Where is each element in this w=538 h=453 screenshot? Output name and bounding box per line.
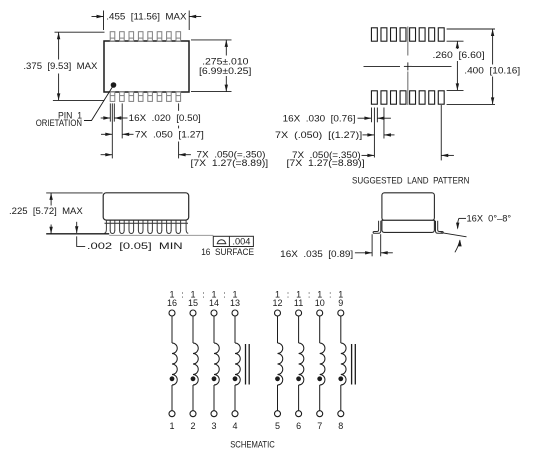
- svg-text:SCHEMATIC: SCHEMATIC: [230, 439, 275, 449]
- dimension .455 [11.56] MAX (package width, top): [103, 11, 105, 31]
- svg-text:14: 14: [209, 298, 219, 308]
- svg-text:6: 6: [296, 421, 301, 431]
- svg-text::: :: [223, 290, 226, 300]
- dimension 16X .035 [0.89] (foot length): [371, 234, 373, 256]
- svg-text:5: 5: [275, 421, 280, 431]
- turns ratio labels 1 : 1 : 1 : 1 (group 2): [275, 290, 343, 300]
- transformer core bars, group 1: [245, 344, 247, 385]
- svg-text:.225 [5.72] MAX: .225 [5.72] MAX: [9, 206, 83, 216]
- flatness callout box: [213, 236, 253, 246]
- end view package body: [382, 193, 435, 221]
- svg-text::: :: [181, 290, 184, 300]
- dimension 7X (.050) [(1.27)] (pad pitch): [363, 134, 375, 136]
- package top view pins (16 gull-wing leads, 8 top / 8 bottom): [110, 32, 180, 102]
- flatness symbol: [217, 243, 227, 245]
- .002 leader elbow: [77, 236, 86, 246]
- svg-text:10: 10: [315, 298, 325, 308]
- lead foot reference line (8 deg): [441, 233, 467, 237]
- svg-text::: :: [308, 290, 311, 300]
- side view leads comb with feet: [104, 220, 188, 233]
- svg-text:16 SURFACE: 16 SURFACE: [201, 247, 254, 257]
- seating plane extension line (gray, to flatness callout): [109, 234, 213, 236]
- land pattern pads (16 solder pads, 8 top / 8 bottom): [371, 28, 444, 104]
- svg-text:SUGGESTED LAND PATTERN: SUGGESTED LAND PATTERN: [352, 175, 470, 185]
- winding T5: terminal circles, wire, 4-loop coil, polarity dot: [275, 310, 283, 417]
- svg-text:2: 2: [190, 421, 195, 431]
- end view base strip: [382, 220, 435, 232]
- dimension .260 [6.60] (inner pad edge gap): [447, 40, 464, 42]
- svg-text:.375 [9.53] MAX: .375 [9.53] MAX: [23, 61, 97, 71]
- svg-text:ORIETATION: ORIETATION: [36, 118, 82, 128]
- end view right gull-wing lead: [436, 221, 444, 234]
- dimension 7X .050(=.350) (pad span): [440, 105, 442, 160]
- winding T6: terminal circles, wire, 4-loop coil, polarity dot: [296, 310, 304, 417]
- pin 1 orientation dot: [111, 82, 117, 88]
- svg-text::: :: [329, 290, 332, 300]
- land pattern centerlines with center cross: [407, 27, 409, 56]
- svg-text:16X .020 [0.50]: 16X .020 [0.50]: [129, 113, 201, 123]
- svg-text:9: 9: [338, 298, 343, 308]
- svg-text:7X .050 [1.27]: 7X .050 [1.27]: [135, 130, 204, 140]
- winding T8: terminal circles, wire, 4-loop coil, polarity dot: [338, 310, 346, 417]
- dimension 16X .020 [0.50] (pin width): [109, 103, 111, 121]
- svg-text:[6.99±0.25]: [6.99±0.25]: [199, 66, 251, 76]
- svg-text:7X (.050) [(1.27)]: 7X (.050) [(1.27)]: [275, 130, 362, 140]
- svg-text:7: 7: [317, 421, 322, 431]
- transformer core bars, group 2: [351, 344, 353, 385]
- svg-text:16: 16: [167, 298, 177, 308]
- svg-text:13: 13: [230, 298, 240, 308]
- dimension .225 [5.72] MAX (package height): [46, 192, 102, 194]
- seating plane line (black, under package): [46, 233, 109, 235]
- top pin numbers 16 15 14 13 12 11 10 9: [167, 298, 343, 308]
- svg-text:8: 8: [338, 421, 343, 431]
- svg-text:.455 [11.56] MAX: .455 [11.56] MAX: [106, 12, 186, 22]
- svg-text:[7X 1.27(=8.89)]: [7X 1.27(=8.89)]: [287, 158, 365, 168]
- dimension .400 [10.16] (outer pad edge span): [447, 28, 495, 30]
- svg-text:4: 4: [232, 421, 237, 431]
- angle dimension 16X 0-8 deg leader and arcs: [459, 217, 466, 219]
- svg-text:11: 11: [294, 298, 303, 308]
- side view package body: [103, 193, 189, 220]
- svg-text:16X 0°–8°: 16X 0°–8°: [467, 214, 512, 224]
- svg-text:.400 [10.16]: .400 [10.16]: [464, 66, 520, 76]
- leader line from PIN 1 ORIETATION label to dot: [84, 87, 113, 121]
- svg-text:16X .035 [0.89]: 16X .035 [0.89]: [280, 249, 353, 259]
- turns ratio labels 1 : 1 : 1 : 1 (group 1): [169, 290, 237, 300]
- svg-text:.002 [0.05] MIN: .002 [0.05] MIN: [87, 241, 183, 251]
- dimension 16X .030 [0.76] (pad width): [370, 108, 372, 123]
- dimension .375 [9.53] MAX (overall lead-to-lead, left): [55, 31, 105, 33]
- package top view body: [104, 41, 189, 92]
- svg-text:12: 12: [272, 298, 282, 308]
- dimension .275±.010 [6.99±0.25] (body height, right): [191, 39, 232, 41]
- end view left gull-wing lead: [373, 221, 381, 234]
- svg-text:[7X 1.27(=8.89)]: [7X 1.27(=8.89)]: [191, 158, 269, 168]
- winding T7: terminal circles, wire, 4-loop coil, polarity dot: [317, 310, 325, 417]
- bottom pin numbers 1-8: [169, 421, 343, 431]
- svg-text:15: 15: [188, 298, 198, 308]
- svg-text::: :: [202, 290, 205, 300]
- svg-text:16X .030 [0.76]: 16X .030 [0.76]: [283, 113, 356, 123]
- winding T1: terminal circles, wire, 4-loop coil, polarity dot: [169, 310, 177, 417]
- dimension .002 [0.05] MIN (standoff) arrow: [76, 222, 78, 233]
- winding T2: terminal circles, wire, 4-loop coil, polarity dot: [190, 310, 198, 417]
- dimension 7X .050(=.350) (pin span): [178, 103, 180, 110]
- side view lead shoulder line: [105, 222, 189, 224]
- svg-text:.260 [6.60]: .260 [6.60]: [433, 50, 485, 60]
- dimension 7X .050 [1.27] (pin pitch): [101, 133, 112, 135]
- svg-text:1: 1: [169, 421, 174, 431]
- svg-text:.004: .004: [232, 237, 250, 247]
- winding T3: terminal circles, wire, 4-loop coil, polarity dot: [211, 310, 219, 417]
- svg-text::: :: [287, 290, 290, 300]
- winding T4: terminal circles, wire, 4-loop coil, polarity dot: [232, 310, 240, 417]
- svg-text:3: 3: [211, 421, 216, 431]
